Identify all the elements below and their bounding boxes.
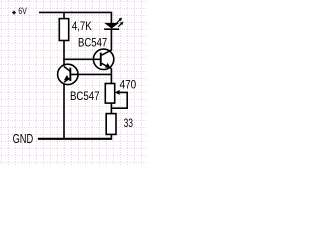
- svg-text:470: 470: [120, 77, 137, 91]
- transistor Q1 collector diagonal: [102, 50, 112, 55]
- svg-text:GND: GND: [13, 131, 34, 146]
- wire Q2 emitter down to GND: [63, 84, 65, 139]
- svg-text:BC547: BC547: [70, 89, 100, 103]
- wire GND rail: [38, 138, 112, 140]
- transistor Q1 base bar: [100, 53, 102, 66]
- potentiometer P1 body: [105, 84, 114, 104]
- node +6V label plus sign: [12, 11, 16, 15]
- transistor Q2 emitter diagonal: [64, 79, 70, 83]
- wire Q1 emitter down to P1: [110, 68, 112, 84]
- wire P1 bottom to R2 top: [110, 103, 112, 114]
- potentiometer P1 wiper wire: [112, 92, 127, 108]
- resistor R2 body: [106, 114, 116, 135]
- wire R2 bottom to GND rail: [110, 134, 112, 138]
- wire rail to R1 top: [63, 12, 65, 19]
- LED D1 light arrow 1: [117, 20, 120, 23]
- LED D1 cathode bar: [104, 28, 119, 30]
- wire Q2 base to right column: [71, 73, 111, 75]
- svg-text:4,7K: 4,7K: [72, 19, 92, 33]
- wire rail corner down to LED anode: [110, 12, 112, 24]
- wire R1 bottom to Q2 collector: [63, 41, 65, 66]
- transistor Q2 base bar: [69, 68, 71, 81]
- resistor R1 body: [59, 19, 68, 41]
- wire junction to Q1 base: [63, 58, 100, 60]
- potentiometer P1 wiper arrow head: [115, 90, 120, 95]
- svg-text:33: 33: [124, 116, 134, 130]
- transistor Q2 collector diagonal: [64, 66, 70, 71]
- transistor Q1 circle: [93, 49, 113, 69]
- LED D1 anode triangle: [104, 23, 119, 29]
- wire LED cathode to Q1 collector: [110, 30, 112, 51]
- transistor Q2 circle: [58, 64, 78, 84]
- transistor Q1 emitter diagonal: [102, 63, 112, 68]
- transistor Q1 emitter arrow: [105, 63, 111, 68]
- wire top +6V rail: [39, 11, 111, 13]
- transistor Q2 emitter arrow: [64, 75, 70, 80]
- svg-text:6V: 6V: [18, 6, 27, 17]
- svg-text:BC547: BC547: [78, 35, 107, 49]
- LED D1 light arrow 2: [118, 24, 121, 27]
